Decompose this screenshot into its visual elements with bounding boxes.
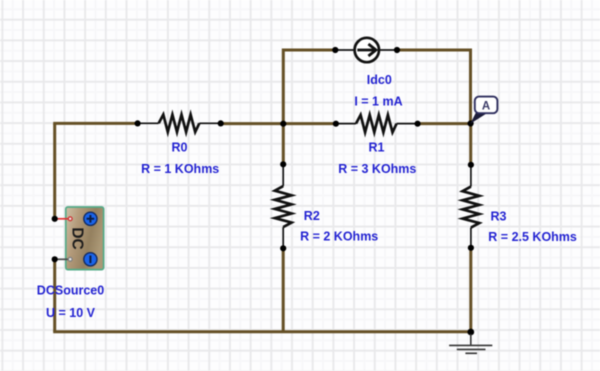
node dot R3 bottom	[468, 245, 474, 251]
ground	[449, 334, 492, 353]
node dot R0 right	[218, 120, 224, 126]
svg-text:U = 10 V: U = 10 V	[46, 306, 96, 320]
wire: top rail from middle junction up and across to current source	[283, 50, 334, 122]
DC source + pin circle	[68, 217, 72, 221]
svg-text:DC: DC	[69, 227, 86, 249]
resistor R1	[336, 115, 418, 132]
svg-text:R = 1 KOhms: R = 1 KOhms	[141, 162, 219, 176]
svg-text:R = 3 KOhms: R = 3 KOhms	[338, 162, 416, 176]
wire: left vertical below DC source down to bottom rail	[53, 259, 56, 331]
resistor R3	[463, 165, 480, 248]
svg-text:A: A	[482, 101, 490, 113]
ground junction dot	[467, 329, 474, 336]
DC source DCSource0 body	[66, 207, 104, 270]
DC source + pin stub (red wire)	[55, 218, 68, 220]
resistor R0	[138, 115, 221, 132]
junction node A at right rail	[468, 120, 474, 126]
svg-text:DCSource0: DCSource0	[37, 284, 104, 298]
node dot R2 bottom	[280, 245, 286, 251]
node dot R1 right	[415, 121, 421, 127]
svg-text:R3: R3	[491, 209, 507, 223]
junction node between R0 and R1 / R2 top	[280, 121, 286, 127]
wire: right vertical R3 bottom to ground junction	[469, 248, 472, 332]
DC source - pin stub (gray wire)	[55, 258, 68, 260]
svg-text:Idc0: Idc0	[367, 73, 392, 87]
wire: middle rail R1 right lead to node A junction	[418, 122, 471, 125]
wire: middle vertical junction to R2 top	[282, 124, 285, 165]
wire: middle rail left segment to R0	[53, 122, 137, 125]
svg-text:R2: R2	[304, 209, 320, 223]
node dot DC - terminal	[52, 256, 58, 262]
current source Idc0	[335, 38, 397, 62]
wire: top-left vertical from middle wire down to DC source + terminal	[53, 123, 56, 218]
svg-text:R = 2.5 KOhms: R = 2.5 KOhms	[488, 230, 577, 244]
resistor R2	[275, 164, 292, 248]
node dot current source right	[394, 47, 400, 53]
DC source - pin circle	[68, 257, 72, 261]
node dot R2 top	[280, 161, 286, 167]
node dot R0 left	[135, 120, 141, 126]
node dot R3 top	[468, 162, 474, 168]
svg-text:I = 1 mA: I = 1 mA	[354, 95, 402, 109]
DC source minus terminal	[84, 253, 97, 266]
svg-text:R1: R1	[369, 141, 385, 155]
svg-text:R = 2 KOhms: R = 2 KOhms	[300, 230, 378, 244]
wire: top rail from current source right around to node A junction	[397, 50, 471, 124]
wire: bottom rail from left to ground junction	[53, 330, 471, 333]
node dot R1 left	[333, 121, 339, 127]
node dot DC + terminal	[52, 216, 58, 222]
node A flag box	[475, 97, 498, 114]
wire: middle rail R0 to node between resistors	[221, 122, 336, 125]
DC source plus terminal	[84, 212, 97, 225]
node A flag tail	[470, 111, 486, 124]
node dot current source left	[332, 47, 338, 53]
wire: middle vertical R2 bottom to bottom rail	[282, 248, 285, 331]
svg-text:R0: R0	[172, 141, 188, 155]
wire: right vertical node A junction to R3 top	[469, 124, 472, 165]
